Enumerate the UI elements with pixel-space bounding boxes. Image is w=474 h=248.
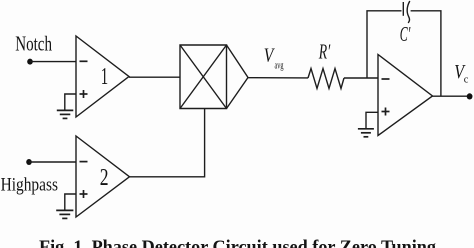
wire resistor to op-amp U2 inverting input [344,77,378,79]
node Vavg label [264,45,284,71]
svg-text:Notch: Notch [15,32,52,56]
node Notch input terminal [27,59,33,65]
wire U1 non-inverting input to ground [65,94,76,110]
wire Highpass input to comparator 2 inverting input [29,161,76,163]
wire U2 output to Vc terminal [433,95,469,97]
comparator U1 [76,36,129,117]
svg-text:C′: C′ [400,22,411,46]
node Highpass input terminal [26,159,32,165]
multiplier X1 [180,45,248,109]
node Vc label [454,61,468,85]
svg-text:avg: avg [275,60,284,71]
svg-text:1: 1 [101,63,108,90]
wire U2 non-inverting input to ground [366,112,378,128]
svg-text:Highpass: Highpass [1,175,58,196]
ground (U1 non-inverting input) [57,110,74,118]
capacitor C' [403,1,410,23]
resistor R' [308,69,344,89]
svg-text:V: V [264,45,275,66]
wire feedback right branch [411,11,441,96]
comparator U3 [76,136,130,217]
wire U3 output to multiplier lower input [130,109,205,177]
wire U1 output to multiplier [129,76,180,78]
svg-text:2: 2 [100,164,109,191]
wire U3 non-inverting input to ground [65,194,76,210]
wire Notch input to comparator 1 inverting input [30,61,76,63]
wire multiplier output to resistor [248,77,308,79]
svg-text:R′: R′ [318,40,330,64]
svg-text:c: c [464,74,469,86]
op-amp U2 [378,55,433,136]
wire feedback left branch [367,11,402,78]
ground (U2 non-inverting input) [358,129,374,137]
svg-text:Fig. 1. Phase Detector Circuit: Fig. 1. Phase Detector Circuit used for … [39,237,436,248]
node Vc output terminal [467,93,473,99]
ground (U3 non-inverting input) [56,210,73,218]
